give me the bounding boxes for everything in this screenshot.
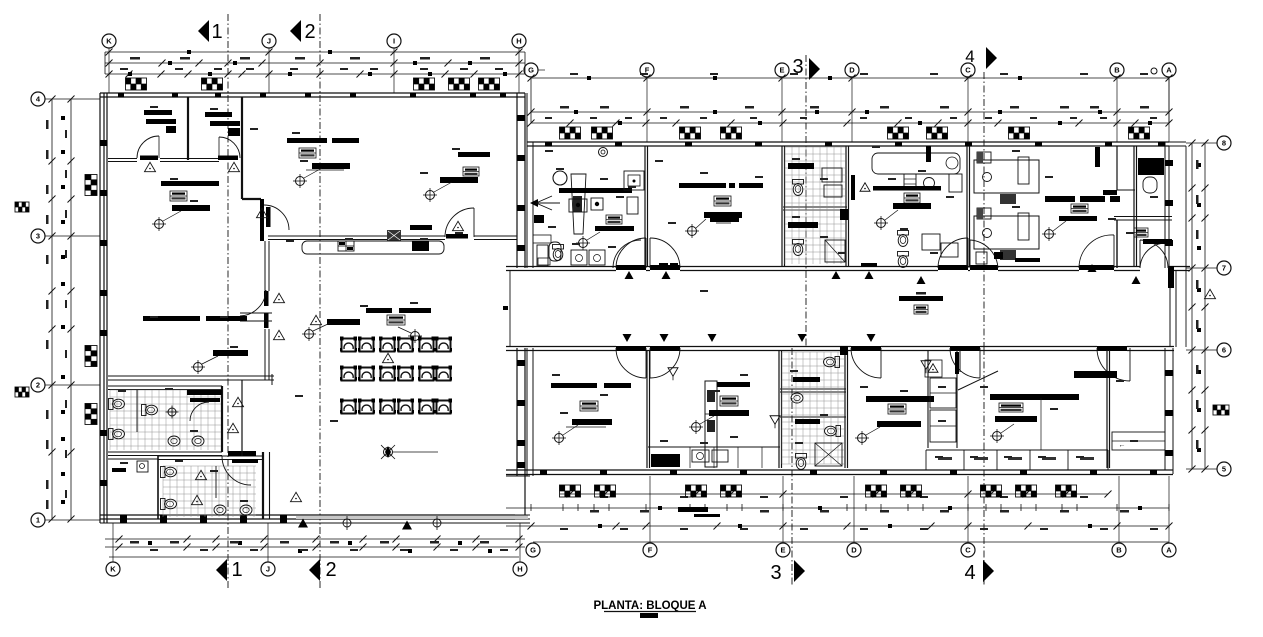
svg-text:C: C [965,66,971,75]
svg-text:I: I [393,37,395,46]
svg-text:B: B [1116,546,1122,555]
svg-text:A: A [1166,66,1172,75]
svg-text:G: G [530,546,536,555]
svg-text:C: C [965,546,971,555]
svg-text:G: G [528,66,534,75]
svg-text:E: E [779,66,784,75]
svg-text:3: 3 [36,232,40,241]
svg-text:K: K [110,565,116,574]
svg-text:2: 2 [325,559,336,581]
svg-text:H: H [516,37,521,46]
svg-text:F: F [648,546,653,555]
svg-text:D: D [851,546,857,555]
svg-text:E: E [780,546,785,555]
svg-text:8: 8 [1222,139,1226,148]
svg-text:4: 4 [964,562,975,584]
svg-text:1: 1 [36,516,40,525]
svg-text:1: 1 [231,559,242,581]
svg-text:3: 3 [770,562,781,584]
svg-text:K: K [106,37,112,46]
svg-text:D: D [849,66,855,75]
svg-text:5: 5 [1222,465,1226,474]
svg-text:J: J [267,37,271,46]
svg-text:PLANTA: BLOQUE A: PLANTA: BLOQUE A [593,600,706,612]
svg-text:1: 1 [211,21,222,43]
svg-text:H: H [517,565,522,574]
svg-text:←: ← [1119,442,1126,449]
svg-text:2: 2 [304,21,315,43]
svg-text:A: A [1166,546,1172,555]
svg-text:7: 7 [1222,264,1226,273]
svg-text:2: 2 [36,381,40,390]
svg-text:B: B [1114,66,1120,75]
svg-text:6: 6 [1222,346,1226,355]
svg-text:J: J [266,565,270,574]
